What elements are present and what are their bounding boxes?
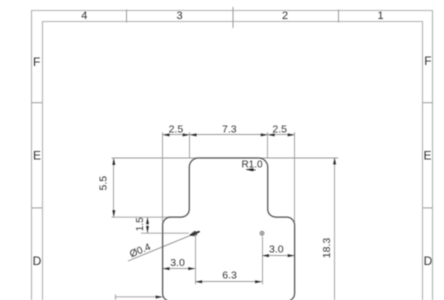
zone divider top 2/1 (338, 10, 340, 23)
part right bottom curve (290, 294, 295, 300)
zone tick right F/E (423, 102, 433, 104)
ext line x=195.2 (left hole down) (195, 236, 197, 284)
hole right marker (260, 231, 264, 236)
leader arrowhead phi0.4 (191, 231, 200, 236)
arrows 1.5 (146, 217, 149, 224)
dim line 6.3 (196, 281, 263, 283)
ext line x=267.7 (top section right) (267, 132, 269, 157)
svg-text:D: D (33, 254, 42, 268)
part outline (163, 158, 295, 300)
dim line 18.3 (334, 158, 336, 300)
svg-text:1: 1 (377, 10, 383, 22)
svg-text:4: 4 (81, 10, 87, 22)
svg-text:F: F (424, 54, 431, 68)
arrows 3.0 right (262, 254, 269, 257)
zone tick left E/D (32, 207, 43, 209)
arrows top dim row (163, 133, 170, 136)
svg-text:2.5: 2.5 (169, 124, 184, 136)
svg-text:6.3: 6.3 (222, 270, 237, 282)
part top-left fillet R1.0 (189, 158, 198, 167)
extension lines (light) (112, 132, 339, 300)
part left S-curve step (163, 209, 190, 225)
dimension lines (light) (114, 135, 335, 300)
dim line top row 2.5/7.3/2.5 (163, 134, 295, 136)
dim line bottom partial (115, 296, 163, 298)
dim line 1.5 (147, 217, 149, 233)
arrow bottom dim right (156, 296, 163, 299)
ext line x=262 (right hole down) (262, 236, 264, 284)
zone divider top 4/3 (126, 10, 128, 23)
zone tick right E/D (423, 207, 433, 209)
part left side upper (188, 167, 190, 209)
ext stub x=115 bottom dim (115, 295, 117, 300)
svg-text:E: E (423, 149, 431, 163)
svg-text:E: E (33, 149, 41, 163)
svg-text:3.0: 3.0 (269, 243, 284, 255)
part left bottom curve (163, 294, 168, 300)
svg-text:7.3: 7.3 (222, 124, 237, 136)
arrow 18.3 up (333, 158, 336, 165)
R1.0 leader arrow (246, 168, 256, 171)
arrows 5.5 (112, 158, 115, 165)
part right S-curve step (268, 209, 295, 225)
part top edge (198, 157, 258, 159)
svg-text:3: 3 (176, 10, 182, 22)
hole left (phi 0.4) (193, 232, 197, 236)
arrows 6.3 (195, 280, 202, 283)
sheet inner border (43, 22, 423, 300)
ext line y=233 (1.5 bottom) (141, 232, 189, 234)
svg-text:2.5: 2.5 (272, 124, 287, 136)
ext line y=158 left (5.5 top) (112, 157, 197, 159)
zone tick left F/E (32, 102, 43, 104)
svg-text:1.5: 1.5 (135, 217, 146, 231)
leader line phi0.4 (128, 232, 200, 261)
ext line y=158 right (18.3 top) (261, 157, 338, 159)
arrows 3.0 left (163, 267, 170, 270)
svg-text:D: D (424, 254, 433, 268)
part right flange side (294, 225, 296, 293)
ext line y=217.1 (5.5 bottom / 1.5 top) (112, 216, 171, 218)
dim line 3.0 left (163, 268, 196, 270)
zone divider top 3/2 (center mark) (232, 7, 234, 28)
svg-text:18.3: 18.3 (321, 238, 333, 259)
arrowheads dark (112, 133, 336, 298)
ext line x=189.6 (top section left) (189, 132, 191, 157)
svg-text:5.5: 5.5 (98, 176, 110, 191)
part top-right fillet R1.0 (259, 158, 268, 167)
dim line 3.0 right (263, 255, 295, 257)
part left flange side (162, 225, 164, 293)
svg-text:F: F (33, 55, 40, 69)
ext line x=162.6 (left flange edge, top dim) (162, 132, 164, 222)
ext line x=294.6 (right flange edge, top dim) (294, 132, 296, 222)
part right side upper (267, 167, 269, 209)
dim line 5.5 (113, 158, 115, 217)
svg-text:2: 2 (282, 10, 288, 22)
svg-text:3.0: 3.0 (170, 257, 185, 269)
svg-text:Ø0.4: Ø0.4 (128, 242, 153, 261)
